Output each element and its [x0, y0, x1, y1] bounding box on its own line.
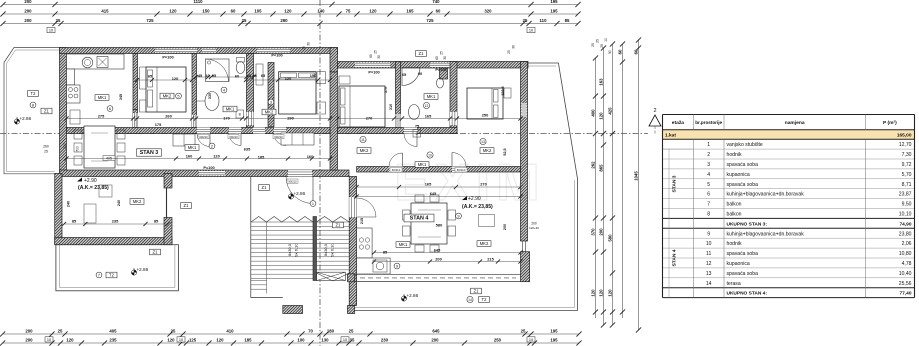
svg-text:8x30,0: 8x30,0 [287, 243, 292, 256]
svg-text:10: 10 [343, 338, 347, 342]
svg-text:2: 2 [707, 152, 710, 158]
svg-text:Z1: Z1 [184, 203, 190, 208]
wall exterior right [521, 62, 528, 242]
svg-text:MK1: MK1 [98, 95, 107, 100]
svg-text:200: 200 [431, 338, 439, 343]
svg-text:30: 30 [377, 55, 381, 59]
svg-text:400: 400 [590, 109, 595, 117]
boxed label 405 dining [103, 156, 115, 161]
svg-text:9: 9 [707, 231, 710, 237]
svg-text:T2: T2 [31, 91, 37, 96]
dimension column v3 [607, 41, 615, 327]
label MK2 bed13 [480, 148, 494, 154]
living4 rug [479, 215, 495, 227]
svg-text:120: 120 [172, 76, 179, 81]
svg-text:kuhinja+blagovaonica+dn.borava: kuhinja+blagovaonica+dn.boravak [727, 192, 805, 198]
label MK1 kitchen4 [396, 242, 410, 248]
svg-text:P=100: P=100 [368, 70, 379, 75]
svg-text:4,78: 4,78 [902, 261, 912, 267]
svg-text:120: 120 [369, 9, 377, 14]
svg-text:120: 120 [598, 112, 603, 120]
svg-text:MK2: MK2 [133, 199, 142, 204]
bed room3 [279, 72, 326, 114]
dim line stan4 living a [372, 250, 523, 254]
svg-text:25: 25 [600, 44, 604, 48]
svg-text:MK2: MK2 [483, 148, 492, 153]
svg-text:270: 270 [366, 116, 373, 121]
svg-text:105: 105 [254, 9, 262, 14]
svg-text:balkon: balkon [727, 212, 742, 218]
svg-text:STAN 3: STAN 3 [672, 175, 678, 192]
dim line bath4 top [194, 75, 256, 79]
svg-text:160: 160 [307, 154, 314, 159]
svg-text:14: 14 [706, 281, 712, 287]
svg-text:410: 410 [226, 329, 234, 334]
svg-text:8: 8 [707, 212, 710, 218]
wall lower-left room right lower [164, 218, 172, 245]
svg-text:200: 200 [435, 257, 442, 262]
svg-text:170: 170 [223, 116, 230, 121]
svg-text:T2: T2 [109, 273, 115, 278]
svg-text:260: 260 [165, 114, 172, 119]
svg-text:+2.86: +2.86 [137, 267, 149, 272]
svg-text:275: 275 [98, 114, 105, 119]
svg-text:1110: 1110 [193, 0, 203, 4]
svg-text:kupaonica: kupaonica [727, 261, 750, 267]
svg-text:13: 13 [481, 140, 485, 144]
svg-text:8: 8 [32, 102, 34, 107]
svg-text:330: 330 [208, 93, 212, 99]
svg-text:P=100: P=100 [271, 53, 282, 58]
svg-text:11: 11 [361, 138, 365, 142]
svg-text:10: 10 [428, 153, 432, 157]
wall bedrooms south stan4 [338, 128, 458, 134]
svg-text:230: 230 [63, 143, 67, 149]
svg-text:(A.K.= 23,85): (A.K.= 23,85) [78, 185, 109, 191]
svg-text:3: 3 [707, 162, 710, 168]
svg-text:23,87: 23,87 [899, 192, 912, 198]
svg-text:MK1: MK1 [418, 162, 427, 167]
svg-text:30: 30 [307, 42, 311, 46]
label Z1 lower-left [181, 203, 192, 209]
section line horizontal [0, 133, 648, 135]
room number 8 [30, 102, 36, 108]
svg-text:spavaća soba: spavaća soba [727, 182, 759, 188]
dimension row top 1 [0, 0, 580, 7]
dim line rooms stan4 [335, 116, 522, 120]
elevation +2.86 terrace7 [131, 267, 148, 275]
room number 4 [221, 87, 227, 93]
room number 1 [310, 201, 316, 207]
door label 60-210 c [198, 135, 209, 139]
svg-text:14: 14 [468, 298, 472, 302]
svg-text:MK1: MK1 [226, 107, 235, 112]
svg-text:740: 740 [432, 0, 440, 4]
svg-text:262: 262 [590, 161, 595, 169]
svg-text:vanjsko stubište: vanjsko stubište [727, 142, 763, 148]
svg-text:11: 11 [706, 251, 711, 257]
svg-text:kupaonica: kupaonica [727, 172, 750, 178]
svg-text:12: 12 [706, 261, 712, 267]
svg-text:77,40: 77,40 [899, 291, 911, 297]
label STAN 3 [137, 149, 162, 156]
room number 9b kitchen [394, 263, 400, 269]
svg-text:200: 200 [24, 9, 32, 14]
svg-text:60: 60 [231, 9, 236, 14]
balcony 8 outline [4, 48, 60, 174]
elevation +2.90 stan4 [462, 196, 493, 210]
svg-text:STAN 3: STAN 3 [140, 150, 158, 156]
svg-text:P=100: P=100 [203, 165, 214, 170]
door arc bedroom5 [197, 134, 210, 147]
svg-text:30: 30 [443, 56, 447, 60]
wall interior bed5 lower stub [133, 110, 138, 134]
svg-text:270: 270 [480, 182, 487, 187]
wall lower-left room bottom [55, 238, 172, 245]
svg-text:165: 165 [425, 182, 432, 187]
wall stan3-stairs boundary [330, 72, 338, 170]
svg-text:25: 25 [44, 150, 48, 154]
svg-text:5,70: 5,70 [902, 172, 912, 178]
dimension row bottom A [0, 329, 582, 337]
staircase [251, 177, 349, 298]
wall living bottom / corridor south [60, 170, 350, 177]
svg-text:310: 310 [389, 104, 393, 110]
svg-text:10: 10 [49, 29, 53, 33]
door arc stairs-living4 [357, 198, 376, 217]
svg-text:9,50: 9,50 [902, 202, 912, 208]
svg-text:10,80: 10,80 [899, 251, 912, 257]
elevation +2.86 balcony8 [14, 116, 31, 124]
svg-text:1: 1 [312, 201, 314, 206]
wall interior bed5-bath4 [192, 54, 197, 134]
plan dimension texts rotated [67, 86, 508, 230]
svg-text:200: 200 [24, 0, 32, 4]
stove stan3 [67, 85, 81, 103]
svg-text:Z1: Z1 [419, 51, 425, 56]
section arrow marker 2 [649, 108, 661, 134]
label MK2 living4 [477, 241, 491, 247]
svg-text:25: 25 [242, 18, 247, 23]
sideboard stan3 [70, 110, 80, 124]
svg-text:MK1: MK1 [399, 242, 408, 247]
elevation +2.86 terrace14 [401, 293, 418, 301]
svg-text:10: 10 [706, 241, 712, 247]
wall lower-left room left [55, 173, 62, 244]
svg-text:B: B [239, 113, 241, 117]
svg-text:7,30: 7,30 [902, 152, 912, 158]
svg-text:12,70: 12,70 [899, 142, 912, 148]
room schedule table [663, 115, 915, 298]
label Z1 corridor window [259, 185, 270, 191]
wall interior bath12-bed13 [450, 62, 457, 134]
room number 2 [209, 143, 215, 149]
svg-text:200: 200 [25, 338, 33, 343]
label Z1 top stan4 [416, 51, 427, 57]
svg-text:185: 185 [244, 338, 252, 343]
stairs x-brace opening [317, 272, 346, 280]
door arc bath12 [404, 134, 417, 147]
wall bedrooms south stan3 [67, 128, 331, 134]
svg-text:MK2: MK2 [360, 148, 369, 153]
label T2 balcony8 [28, 91, 39, 97]
terrace 7 outline [56, 245, 178, 291]
room number 9 [456, 213, 462, 219]
svg-text:4: 4 [707, 172, 710, 178]
svg-text:200: 200 [25, 329, 33, 334]
svg-text:25,56: 25,56 [899, 281, 912, 287]
svg-text:215: 215 [487, 257, 494, 262]
label MK1 bath4 [223, 106, 237, 112]
svg-text:25: 25 [171, 329, 176, 334]
label Z1 terrace14 [471, 288, 482, 294]
svg-text:415: 415 [101, 9, 109, 14]
svg-text:90: 90 [418, 71, 422, 76]
svg-text:2: 2 [653, 108, 656, 114]
svg-text:(A.K.= 23,85): (A.K.= 23,85) [462, 204, 493, 210]
svg-text:T2: T2 [482, 297, 488, 302]
svg-text:MK1: MK1 [188, 145, 197, 150]
svg-text:60: 60 [633, 49, 638, 54]
svg-text:7: 7 [98, 272, 100, 277]
svg-text:spavaća soba: spavaća soba [727, 251, 759, 257]
svg-text:60/210: 60/210 [457, 168, 466, 172]
elevation +2.86 stairs [288, 191, 305, 199]
door arc living4-corridor [389, 153, 403, 167]
svg-text:25: 25 [302, 46, 306, 50]
wall exterior top left section [60, 48, 338, 54]
svg-text:865: 865 [598, 164, 603, 172]
svg-text:85: 85 [565, 18, 570, 23]
glass door lower-left room [166, 188, 168, 218]
boxed label 10 bottom-mid [177, 337, 185, 342]
wall interior bath4-bed3 [247, 54, 254, 134]
wall pier stairs bottom right [348, 306, 355, 314]
svg-text:25: 25 [521, 329, 526, 334]
dining table stan3 [74, 126, 125, 168]
kitchen counter stan3 [67, 54, 125, 85]
svg-text:30: 30 [512, 45, 516, 49]
svg-text:290: 290 [287, 116, 294, 121]
svg-text:200: 200 [598, 228, 603, 236]
svg-text:645: 645 [432, 329, 440, 334]
label MK2 bed11 [357, 148, 371, 154]
wall pier stairs bottom left [283, 306, 303, 314]
label MK1 bath12 [424, 94, 438, 100]
svg-text:9,72: 9,72 [902, 162, 912, 168]
svg-text:120: 120 [284, 9, 292, 14]
svg-text:195: 195 [550, 0, 558, 4]
svg-text:60: 60 [435, 56, 439, 60]
svg-text:spavaća soba: spavaća soba [727, 162, 759, 168]
svg-text:635: 635 [244, 147, 251, 152]
wall terrace corner [521, 252, 530, 282]
dimension column v4 [617, 41, 625, 318]
svg-text:230: 230 [381, 338, 389, 343]
door arc bath4 [229, 134, 241, 146]
svg-text:25: 25 [596, 39, 600, 43]
svg-text:580: 580 [607, 234, 612, 242]
room number 12 [423, 102, 429, 108]
svg-text:1: 1 [707, 142, 710, 148]
svg-text:185: 185 [258, 155, 265, 160]
svg-text:terasa: terasa [727, 281, 741, 287]
terrace 14 outline [355, 63, 578, 311]
wall interior bed11-bath12 [396, 62, 401, 134]
svg-text:235: 235 [112, 219, 119, 224]
svg-text:235: 235 [109, 338, 117, 343]
room number 14 [467, 296, 473, 302]
svg-text:120: 120 [66, 338, 74, 343]
door label 90-210 f [287, 179, 298, 183]
label MK2 bed5 [160, 93, 174, 99]
svg-text:320: 320 [484, 9, 492, 14]
svg-text:6: 6 [109, 106, 111, 111]
svg-text:1.kat: 1.kat [665, 133, 676, 139]
lower-left room furniture [99, 185, 112, 197]
wall stan4 south pier [348, 274, 355, 282]
svg-text:Z1: Z1 [44, 109, 50, 114]
bed room13 [467, 88, 511, 119]
svg-text:UKUPNO STAN 4:: UKUPNO STAN 4: [727, 291, 768, 297]
label MK1 corridor10 [415, 162, 429, 168]
door arc stan4 entrance [286, 177, 313, 204]
dim line bed3 top [244, 78, 332, 82]
svg-text:90/210: 90/210 [288, 179, 297, 183]
label T2 terrace14 [479, 297, 490, 303]
svg-text:9: 9 [396, 263, 398, 268]
label Z1 balcony8 [41, 108, 52, 114]
svg-text:+2.86: +2.86 [294, 191, 306, 196]
wall exterior left [60, 48, 67, 177]
boxed label 10 bottom-right [527, 337, 535, 342]
room number 6 [107, 106, 113, 112]
svg-text:MK1: MK1 [427, 94, 436, 99]
svg-text:25: 25 [523, 18, 528, 23]
door label 60-210 b [455, 168, 467, 173]
bed room11 [339, 76, 385, 127]
svg-text:175: 175 [155, 122, 162, 127]
svg-text:405: 405 [109, 329, 117, 334]
svg-text:P=100: P=100 [162, 55, 173, 60]
svg-text:25: 25 [374, 50, 378, 54]
svg-text:10,40: 10,40 [899, 271, 912, 277]
svg-text:25: 25 [58, 329, 63, 334]
wall stub toilet12 [440, 68, 448, 79]
svg-text:etaža: etaža [672, 120, 685, 126]
bed room5 [140, 67, 187, 112]
svg-text:122,5: 122,5 [501, 86, 505, 95]
dim line lower-left room [62, 222, 170, 226]
wall stan4 south glass [355, 274, 521, 281]
svg-text:P=100: P=100 [435, 67, 446, 72]
dimension row top 2 [0, 9, 580, 17]
svg-text:P (m²): P (m²) [883, 120, 897, 126]
boxed label 10 bottom-mid2 [341, 337, 349, 342]
dimension column v5 [633, 37, 641, 332]
svg-text:13: 13 [706, 271, 712, 277]
svg-text:425: 425 [607, 107, 612, 115]
svg-text:725: 725 [146, 18, 154, 23]
boxed label 10 bottom-left [45, 337, 53, 342]
sink bath4 [197, 92, 219, 111]
svg-text:Z1: Z1 [262, 185, 268, 190]
glass door terrace right [522, 241, 524, 252]
svg-text:25: 25 [591, 43, 595, 47]
svg-text:25: 25 [440, 51, 444, 55]
svg-text:180: 180 [327, 329, 335, 334]
svg-text:200: 200 [24, 18, 32, 23]
svg-text:8,71: 8,71 [902, 182, 912, 188]
svg-text:120: 120 [598, 289, 603, 297]
svg-text:+2.90: +2.90 [84, 178, 97, 184]
svg-text:250: 250 [482, 113, 489, 118]
label STAN 4 [404, 214, 434, 222]
svg-text:165,00: 165,00 [897, 133, 912, 139]
svg-text:140: 140 [317, 9, 325, 14]
svg-text:25: 25 [56, 18, 61, 23]
svg-text:35: 35 [350, 338, 355, 343]
boxed label 10 top-left [47, 28, 55, 33]
room number 10 [427, 152, 433, 158]
svg-text:10: 10 [47, 338, 51, 342]
svg-text:12: 12 [425, 104, 429, 108]
closet corridor left [173, 134, 195, 146]
label T2 terrace7 [106, 272, 117, 278]
svg-text:120: 120 [590, 289, 595, 297]
svg-text:60/210: 60/210 [229, 135, 238, 139]
svg-text:23,80: 23,80 [899, 231, 912, 237]
svg-text:+2.86: +2.86 [20, 116, 32, 121]
washer bath12 [413, 130, 421, 138]
svg-text:5: 5 [177, 93, 179, 98]
svg-text:7: 7 [707, 202, 710, 208]
svg-text:6: 6 [707, 192, 710, 198]
svg-text:200: 200 [531, 222, 537, 226]
elevation +2.90 lower-left [77, 178, 109, 192]
svg-text:165: 165 [425, 114, 432, 119]
svg-text:9x 6,10: 9x 6,10 [294, 243, 299, 257]
svg-text:+2.86: +2.86 [407, 293, 419, 298]
svg-text:8x30,0: 8x30,0 [323, 243, 328, 256]
svg-text:370: 370 [384, 87, 388, 93]
svg-text:Z1: Z1 [474, 289, 480, 294]
svg-text:260: 260 [43, 145, 49, 149]
dimension column v1 [590, 55, 598, 318]
svg-text:5: 5 [707, 182, 710, 188]
svg-text:165: 165 [406, 9, 414, 14]
svg-text:195: 195 [550, 329, 558, 334]
svg-text:60: 60 [235, 74, 239, 79]
door label 60-210 d [228, 135, 239, 139]
svg-text:25: 25 [507, 50, 511, 54]
wall interior living-bed5 [133, 54, 138, 110]
svg-text:240: 240 [67, 201, 71, 207]
wall niche-bed3 [268, 63, 274, 127]
label Z1 stairs [333, 222, 344, 228]
dim line stan4 top [355, 185, 523, 189]
svg-text:3: 3 [270, 99, 272, 104]
svg-text:120: 120 [607, 289, 612, 297]
svg-text:120: 120 [213, 154, 220, 159]
svg-text:UKUPNO STAN 3:: UKUPNO STAN 3: [727, 221, 768, 227]
svg-text:+2.90: +2.90 [468, 196, 481, 202]
dimension row bottom B [0, 338, 582, 346]
toilet bath12 [437, 78, 444, 88]
plan dimension texts [72, 53, 495, 262]
svg-text:25: 25 [349, 329, 354, 334]
svg-text:240: 240 [117, 200, 121, 206]
